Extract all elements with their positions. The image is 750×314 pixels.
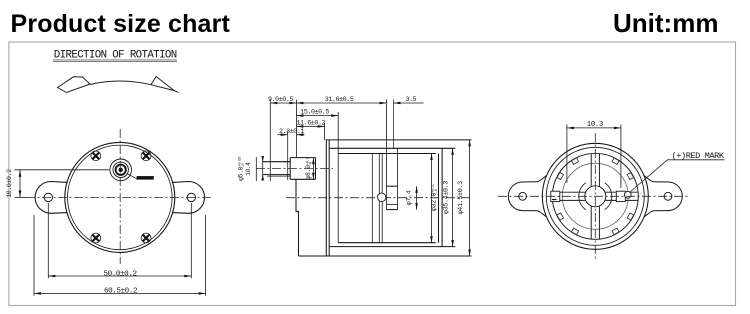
svg-text:2.3±0.1: 2.3±0.1: [279, 128, 304, 135]
svg-text:9.0±0.5: 9.0±0.5: [268, 96, 293, 103]
svg-text:Unit:mm: Unit:mm: [613, 8, 718, 38]
svg-text:50.0±0.2: 50.0±0.2: [104, 270, 138, 278]
svg-text:(+)RED MARK: (+)RED MARK: [672, 151, 725, 161]
svg-text:10.0±0.2: 10.0±0.2: [6, 169, 13, 198]
svg-text:10.4: 10.4: [245, 162, 252, 176]
svg-text:31.6±0.5: 31.6±0.5: [325, 96, 354, 103]
svg-text:Product size chart: Product size chart: [11, 10, 231, 38]
svg-text:11.6±0.2: 11.6±0.2: [297, 120, 326, 127]
svg-text:φ41.5±0.3: φ41.5±0.3: [457, 181, 465, 214]
svg-text:φ7.4: φ7.4: [406, 190, 414, 205]
svg-text:10.3: 10.3: [587, 121, 603, 129]
svg-text:φ35.4±0.3: φ35.4±0.3: [442, 181, 450, 214]
svg-text:15.0±0.5: 15.0±0.5: [300, 109, 329, 116]
svg-text:3.5: 3.5: [406, 96, 417, 103]
svg-text:60.5±0.2: 60.5±0.2: [104, 287, 138, 295]
